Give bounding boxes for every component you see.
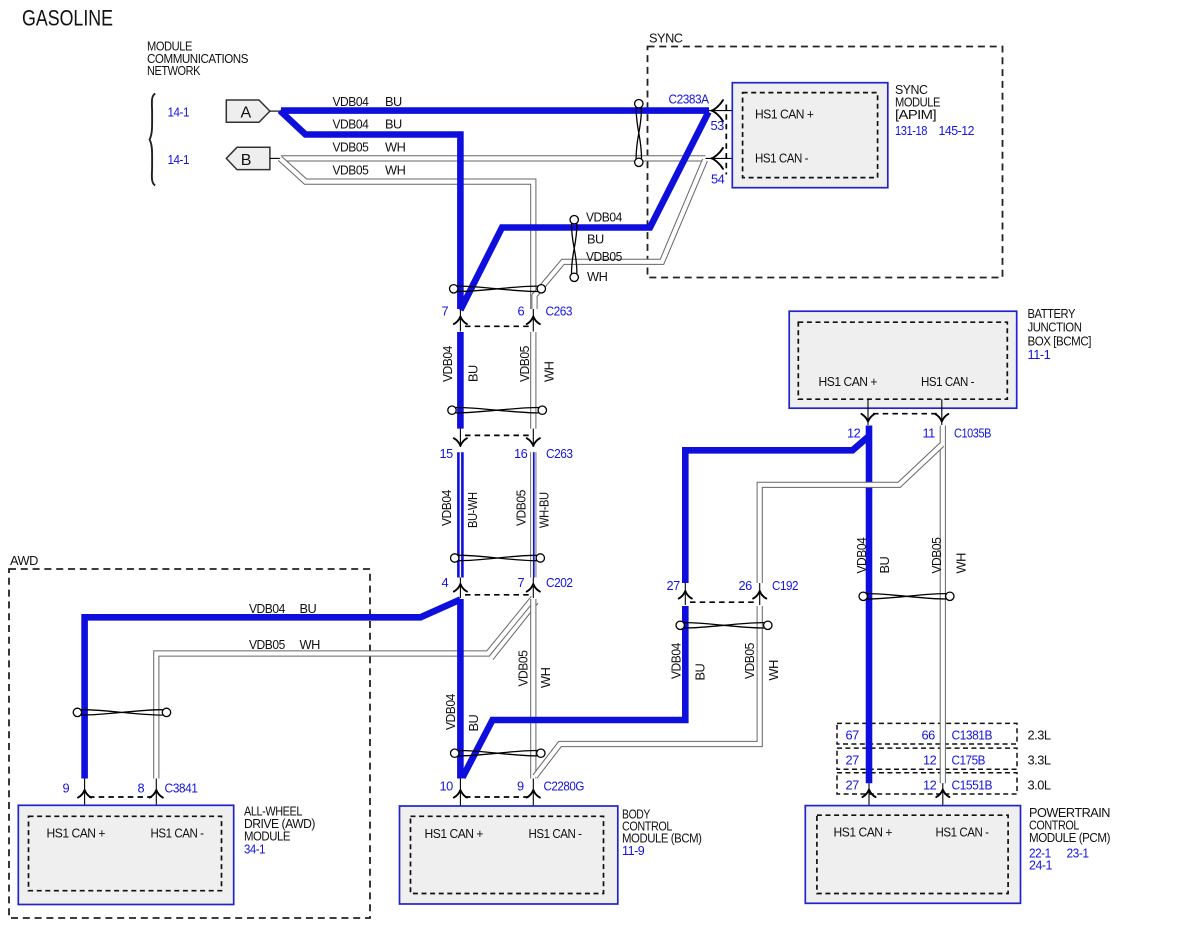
svg-text:VDB04: VDB04: [669, 643, 684, 679]
svg-text:VDB04: VDB04: [440, 346, 455, 382]
svg-text:C3841: C3841: [165, 781, 198, 796]
svg-text:34-1: 34-1: [244, 842, 265, 857]
twisted pair (BJB to PCM): [867, 594, 946, 599]
svg-text:4: 4: [442, 575, 449, 590]
svg-text:HS1 CAN +: HS1 CAN +: [819, 374, 878, 389]
label VDB04 BU-WH (vertical): [439, 490, 480, 528]
twisted pair (C263 7/6 drop): [456, 408, 539, 413]
svg-text:24-1: 24-1: [1029, 858, 1052, 873]
connector C202 pins 4/7: [454, 578, 540, 599]
wire VDB04 BU from A to C2383A pin 53: [281, 107, 709, 114]
svg-text:VDB05: VDB05: [742, 643, 757, 679]
svg-text:WH: WH: [538, 667, 553, 688]
svg-text:A: A: [241, 104, 252, 121]
svg-text:C263: C263: [546, 446, 573, 461]
svg-text:C263: C263: [546, 304, 573, 319]
svg-text:C202: C202: [546, 575, 573, 590]
svg-text:VDB04: VDB04: [333, 94, 369, 109]
svg-text:NETWORK: NETWORK: [147, 63, 201, 78]
svg-text:27: 27: [667, 578, 681, 593]
SYNC harness dashed box: [648, 31, 1003, 278]
svg-text:54: 54: [711, 172, 725, 187]
svg-text:HS1 CAN -: HS1 CAN -: [921, 374, 974, 389]
svg-text:C192: C192: [772, 578, 798, 593]
svg-text:MODULE (PCM): MODULE (PCM): [1029, 830, 1110, 845]
svg-text:14-1: 14-1: [168, 105, 190, 120]
module All-Wheel Drive (AWD): [18, 805, 233, 904]
svg-text:C2383A: C2383A: [669, 91, 710, 106]
svg-text:WH: WH: [385, 140, 406, 155]
svg-text:12: 12: [923, 778, 937, 793]
svg-text:27: 27: [846, 778, 860, 793]
svg-text:8: 8: [138, 781, 145, 796]
svg-text:VDB04: VDB04: [443, 694, 458, 730]
wire stub from B: [270, 157, 281, 159]
svg-text:7: 7: [518, 575, 525, 590]
svg-text:VDB05: VDB05: [586, 249, 622, 264]
connector C192 pins 27/26: [679, 583, 767, 605]
connector C3841 pins 9/8: [78, 779, 163, 817]
label BODY CONTROL MODULE (BCM): [622, 807, 702, 859]
node B terminal tag: [226, 147, 270, 169]
brace: [150, 94, 156, 186]
svg-text:VDB04: VDB04: [439, 490, 454, 526]
svg-text:BU: BU: [466, 714, 481, 731]
label VDB04 BU (PCM drop): [854, 537, 892, 573]
twisted pair (C263 15/16 to C202): [459, 555, 537, 560]
svg-text:VDB05: VDB05: [929, 537, 944, 573]
svg-text:BU-WH: BU-WH: [465, 492, 480, 528]
svg-text:HS1 CAN +: HS1 CAN +: [425, 826, 484, 841]
label VDB05 WH (PCM drop): [929, 537, 969, 573]
module U1 SYNC MODULE [APIM]: [732, 83, 888, 188]
label VDB05 WH (sync drop): [586, 249, 622, 284]
svg-text:WH: WH: [385, 163, 406, 178]
svg-text:HS1 CAN +: HS1 CAN +: [47, 826, 106, 841]
wire VDB05 WH C263.6 to C263.16: [530, 332, 536, 429]
svg-text:VDB04: VDB04: [333, 117, 369, 132]
svg-text:SYNC: SYNC: [649, 31, 683, 46]
svg-text:7: 7: [442, 304, 449, 319]
svg-text:VDB05: VDB05: [249, 637, 285, 652]
connector box C1551B (3.0L): [837, 773, 1017, 794]
module Powertrain Control Module (PCM): [805, 806, 1020, 904]
svg-text:67: 67: [846, 728, 860, 743]
svg-text:2.3L: 2.3L: [1028, 728, 1051, 743]
wire VDB05 WH branch BJB to C192.26: [760, 445, 942, 584]
connector C2280G pins 10/9: [454, 779, 540, 817]
svg-text:BU: BU: [385, 94, 402, 109]
wire VDB04 BU C202.4 to AWD pin 9: [85, 600, 461, 779]
svg-text:WH: WH: [542, 361, 557, 382]
connector C263 pins 15/16: [454, 429, 540, 447]
svg-text:10: 10: [440, 779, 454, 794]
wire VDB04 BU C202.4 to BCM pin 10: [457, 599, 464, 779]
svg-text:VDB05: VDB05: [333, 163, 369, 178]
svg-text:66: 66: [922, 728, 936, 743]
svg-text:12: 12: [923, 753, 937, 768]
svg-text:16: 16: [514, 446, 528, 461]
svg-text:C1035B: C1035B: [954, 426, 991, 441]
wire VDB04 BU BJB.12 to PCM: [866, 426, 873, 784]
twisted pair (above C263 7/6): [458, 286, 538, 291]
svg-text:HS1 CAN -: HS1 CAN -: [151, 826, 204, 841]
svg-text:VDB05: VDB05: [517, 346, 532, 382]
svg-text:WH-BU: WH-BU: [537, 492, 552, 528]
svg-text:BU: BU: [587, 232, 604, 247]
svg-text:C2280G: C2280G: [544, 779, 585, 794]
svg-text:145-12: 145-12: [939, 123, 975, 138]
svg-text:15: 15: [440, 446, 454, 461]
connector C2383A dashed boundary: [725, 105, 727, 175]
svg-text:C175B: C175B: [952, 753, 986, 768]
svg-text:B: B: [241, 152, 251, 169]
label VDB05 WH (BCM drop): [516, 650, 554, 688]
wire VDB04 BU C263.7 to C263.15: [457, 332, 464, 429]
label VDB05 WH (row 4): [333, 163, 406, 178]
wire stub from A: [270, 110, 281, 112]
label POWERTRAIN CONTROL MODULE (PCM): [1029, 805, 1110, 873]
svg-text:VDB05: VDB05: [514, 490, 529, 526]
svg-text:WH: WH: [766, 660, 781, 681]
node A terminal tag: [226, 100, 270, 122]
svg-text:9: 9: [63, 781, 70, 796]
connector C263 pins 7/6: [454, 309, 540, 332]
svg-text:131-18: 131-18: [895, 123, 927, 138]
label VDB05 WH (row 3): [333, 140, 406, 155]
svg-text:VDB04: VDB04: [854, 537, 869, 573]
wire VDB05 WH C202.7 to AWD pin 8: [156, 598, 533, 779]
svg-text:11-9: 11-9: [622, 843, 645, 858]
svg-text:HS1 CAN -: HS1 CAN -: [755, 150, 808, 165]
wire VDB04 BU branch BCM to C192 pin 27: [463, 606, 686, 778]
wire VDB05 WH C202.7 to AWD pin 8 (branch stub): [491, 602, 536, 659]
svg-text:BU: BU: [385, 117, 402, 132]
wire VDB05 WH branch BCM to C192 pin 26: [535, 606, 760, 777]
svg-text:9: 9: [517, 779, 524, 794]
svg-text:WH: WH: [954, 553, 969, 574]
svg-text:HS1 CAN -: HS1 CAN -: [529, 826, 582, 841]
label VDB04 BU (sync drop): [586, 210, 622, 247]
svg-text:HS1 CAN +: HS1 CAN +: [834, 825, 893, 840]
label SYNC MODULE [APIM]: [895, 82, 974, 138]
svg-text:14-1: 14-1: [168, 152, 190, 167]
svg-text:6: 6: [518, 304, 525, 319]
svg-text:27: 27: [846, 753, 860, 768]
twisted pair (AWD): [81, 710, 163, 715]
svg-text:BU: BU: [300, 601, 317, 616]
wire VDB05 WH BJB.11 to PCM: [940, 426, 946, 784]
svg-text:23-1: 23-1: [1067, 846, 1089, 861]
svg-text:53: 53: [711, 118, 725, 133]
label VDB05 WH-BU (vertical): [514, 490, 552, 528]
connector C2383A pin 54: [706, 148, 744, 169]
wire VDB04 BU from A branch down to C263 pin 7: [280, 111, 460, 309]
svg-text:C1381B: C1381B: [952, 728, 993, 743]
svg-text:GASOLINE: GASOLINE: [22, 5, 113, 30]
label VDB05 WH (AWD): [249, 637, 320, 652]
label VDB05 WH (vertical): [517, 346, 557, 382]
svg-text:BU: BU: [693, 663, 708, 680]
label BATTERY JUNCTION BOX [BCMC]: [1028, 306, 1092, 362]
svg-text:VDB04: VDB04: [586, 210, 622, 225]
module Body Control Module (BCM): [400, 806, 618, 904]
twisted pair (C192): [684, 623, 764, 628]
PCM pin lines and arrows: [862, 783, 949, 815]
wire VDB05 WH from B branch down to C263 pin 6: [280, 158, 533, 309]
wire VDB05 WH from B to C2383A pin 54: [281, 155, 706, 161]
wire VDB05 WH C202.7 to BCM pin 9: [530, 599, 536, 779]
label MODULE COMMUNICATIONS NETWORK: [147, 39, 248, 79]
label VDB04 BU (AWD): [249, 601, 317, 616]
connector box C175B (3.3L): [837, 748, 1017, 769]
svg-text:11: 11: [923, 426, 936, 441]
label ALL-WHEEL DRIVE (AWD) MODULE: [244, 804, 315, 857]
module Battery Junction Box [BCMC]: [789, 311, 1017, 408]
wire VDB04 BU continuation from pin 53 down-left to C263 pin 7: [460, 112, 708, 310]
connector box C1381B (2.3L): [837, 723, 1017, 744]
AWD harness dashed box: [9, 553, 370, 918]
svg-text:VDB05: VDB05: [516, 650, 531, 686]
svg-text:VDB05: VDB05: [333, 140, 369, 155]
label VDB04 BU (C192 drop): [669, 643, 708, 681]
label VDB04 BU (BCM drop): [443, 694, 481, 732]
svg-text:3.3L: 3.3L: [1028, 753, 1051, 768]
connector C2383A pin 53: [709, 100, 743, 121]
svg-text:BU: BU: [877, 556, 892, 573]
svg-text:AWD: AWD: [10, 553, 38, 568]
svg-text:HS1 CAN +: HS1 CAN +: [755, 106, 814, 121]
svg-text:BU: BU: [466, 365, 481, 382]
svg-text:VDB04: VDB04: [249, 601, 285, 616]
svg-text:11-1: 11-1: [1028, 347, 1051, 362]
label VDB04 BU (row 1): [333, 94, 403, 109]
twisted pair (BCM): [459, 751, 538, 756]
label VDB04 BU (vertical): [440, 346, 481, 382]
svg-text:26: 26: [739, 578, 753, 593]
svg-text:JUNCTION: JUNCTION: [1028, 320, 1082, 335]
wire VDB04 BU branch BJB to C192.27: [685, 436, 869, 583]
twisted pair (A/B to SYNC): [636, 108, 641, 159]
svg-text:C1551B: C1551B: [952, 778, 993, 793]
label VDB05 WH (C192 drop): [742, 643, 781, 681]
connector C1035B pins 12/11: [861, 399, 948, 425]
svg-text:WH: WH: [587, 269, 608, 284]
svg-text:WH: WH: [300, 637, 321, 652]
svg-text:3.0L: 3.0L: [1028, 778, 1051, 793]
svg-text:12: 12: [847, 426, 861, 441]
label VDB04 BU (row 2): [333, 117, 403, 132]
wire VDB05 WH continuation from pin 54 down-left to C263 pin 6: [535, 160, 706, 309]
twisted pair (SYNC drop): [572, 224, 577, 274]
svg-text:[APIM]: [APIM]: [895, 107, 936, 122]
wire VDB04 BU-WH C263.15 to C202.4: [457, 452, 464, 577]
wire VDB05 WH-BU C263.16 to C202.7: [530, 452, 536, 577]
svg-text:HS1 CAN -: HS1 CAN -: [936, 825, 989, 840]
